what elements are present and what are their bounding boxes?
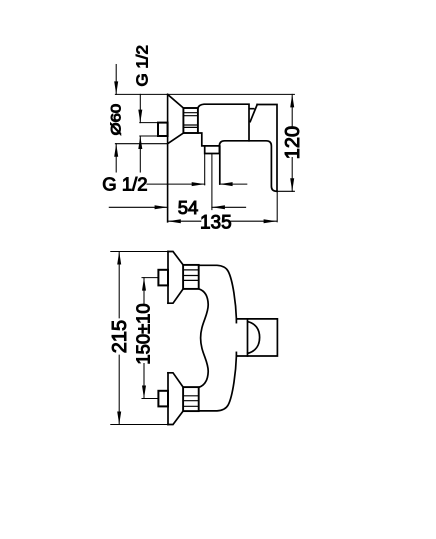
dimension 135 right arrow [264,219,277,223]
dimension 150 top arrow [142,278,146,291]
dimension G 1/2 square bottom arrow up [138,136,142,172]
extension line 135 right [276,191,278,222]
extension lines inlet square [140,123,158,136]
extension lines 215 [111,252,173,425]
body seam bottom [235,352,237,356]
bottom inlet square (plan) [158,391,168,407]
dimension 135 left arrow [168,219,181,223]
extension lines 150 [142,278,158,399]
dimension 135 line [168,220,277,222]
cartridge dome arc [248,319,260,356]
body waist S-curve [199,289,208,387]
dimension 120 bottom arrow [290,178,294,191]
top escutcheon base edge [167,252,169,304]
body bottom edge (plan) [199,356,237,411]
lever handle top and outer edge [257,105,277,192]
lever grip outline [219,141,276,192]
svg-text:215: 215 [109,320,131,353]
lever seam slant [250,105,257,122]
top knurled nut (plan) [183,265,199,289]
dimension 120 line [291,94,293,191]
lever cap rectangle (plan) [236,319,277,356]
dimension 54 right arrow [212,205,246,209]
dimension 215 bottom arrow [117,412,121,425]
extension line A (top reference) [115,93,294,95]
svg-text:150±10: 150±10 [132,303,153,364]
inlet square fitting G 1/2 (side view) [158,123,168,136]
dimension 215 top arrow [117,252,121,265]
dimension diam60 bottom arrow [114,144,118,172]
top inlet square (plan) [158,270,168,286]
wall line [167,94,169,221]
dimension 150 line [143,278,145,399]
extension line diam60 bottom [115,143,167,145]
bottom escutcheon cone [168,373,183,425]
svg-text:G 1/2: G 1/2 [135,45,152,87]
outlet stub centerline [211,154,213,210]
svg-text:Ø60: Ø60 [108,104,124,136]
dimension 215 line [118,252,120,425]
dimension 120 top arrow [290,94,294,107]
body top edge (plan) [199,265,237,319]
knurled nut (side view) [183,108,198,133]
dimension 150 bottom arrow [142,386,146,399]
body top outline [198,104,254,141]
bottom escutcheon base edge [167,373,169,425]
outlet stub extension lines [205,154,220,185]
svg-text:135: 135 [200,212,232,233]
dimension diam60 top arrow [114,65,118,95]
dimension G 1/2 top arrow down [138,94,142,122]
dimension 54 left arrow [109,205,167,209]
escutcheon (side view cone) [168,94,184,143]
body seam top [235,319,237,323]
grip left edge [219,146,221,184]
G 1/2 leader arrow right [147,182,205,186]
bottom knurled nut (plan) [183,387,199,411]
body underside and outlet stub [198,133,220,154]
G 1/2 counter arrow left [220,182,247,186]
svg-text:120: 120 [282,126,304,159]
svg-text:G 1/2: G 1/2 [102,174,147,195]
extension line 120 bottom [277,190,294,192]
svg-text:54: 54 [178,197,199,218]
top escutcheon cone [168,252,183,304]
